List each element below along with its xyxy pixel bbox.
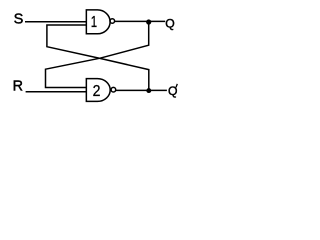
nand gate U1 body bbox=[86, 10, 110, 34]
wire gate 1 output to Q bbox=[115, 20, 166, 22]
wire R to gate 2 bottom input bbox=[26, 91, 87, 93]
junction node Q bbox=[146, 19, 151, 24]
svg-text:R: R bbox=[13, 78, 23, 94]
svg-text:Q: Q bbox=[165, 17, 174, 31]
wire gate 2 output to Q' bbox=[115, 89, 167, 91]
svg-text:1: 1 bbox=[91, 13, 97, 30]
svg-text:2: 2 bbox=[93, 82, 101, 100]
inverting bubble U1 bbox=[110, 19, 115, 24]
junction node Q' bbox=[146, 88, 151, 93]
wire S to gate 1 top input bbox=[25, 21, 87, 23]
wire feedback Q to gate 2 top input bbox=[46, 22, 149, 88]
wire feedback Q' to gate 1 bottom input bbox=[47, 25, 149, 91]
nand gate U2 body bbox=[86, 79, 110, 102]
svg-text:S: S bbox=[14, 12, 24, 28]
prime mark on Q bbox=[176, 84, 177, 88]
inverting bubble U2 bbox=[111, 87, 116, 92]
